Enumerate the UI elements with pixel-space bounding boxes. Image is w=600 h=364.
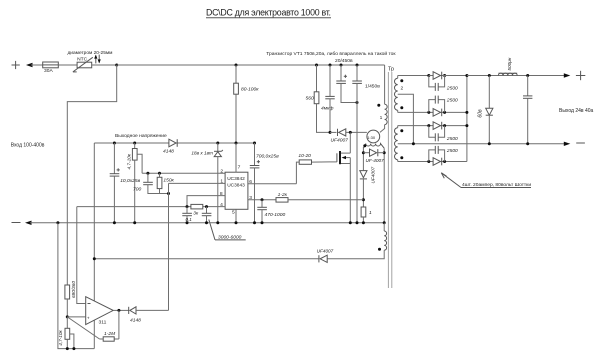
dimension arrow up (94, 55, 97, 64)
svg-text:18в х 1вт: 18в х 1вт (191, 151, 213, 156)
diode 4148 comparator (129, 307, 169, 324)
svg-text:1: 1 (369, 210, 372, 216)
svg-text:Выходное напряжение: Выходное напряжение (115, 133, 167, 139)
svg-text:NTC: NTC (77, 57, 88, 63)
wire output plus bus (467, 75, 566, 77)
input plus terminal (12, 61, 43, 69)
svg-text:2: 2 (220, 169, 223, 175)
op-amp 311 (86, 297, 114, 326)
wire pin2 feedback node (142, 172, 225, 175)
diode 4148 vcc feed (160, 139, 177, 154)
input minus terminal (12, 221, 32, 225)
svg-text:3к: 3к (193, 211, 199, 217)
svg-text:60в: 60в (478, 109, 484, 118)
transformer secondary winding lower (395, 126, 404, 162)
svg-text:2500: 2500 (446, 86, 458, 92)
wire pin1 (169, 182, 226, 184)
wire op-amp output (113, 309, 129, 312)
transformer primary winding 1 (377, 65, 387, 132)
callout 4pcs 20A 80V schottky (441, 173, 531, 188)
wire w1 center tap (398, 94, 414, 144)
svg-text:1-2М: 1-2М (104, 331, 116, 337)
svg-text:Тр: Тр (388, 67, 394, 73)
resistor 1-2M hysteresis (67, 310, 119, 341)
svg-text:4мкф: 4мкф (321, 106, 333, 112)
wire pin5 gnd (235, 209, 237, 223)
svg-text:7: 7 (238, 165, 241, 171)
svg-text:4,7-10к: 4,7-10к (127, 153, 132, 169)
capacitor 2500 on D4 (429, 146, 458, 162)
capacitor 2500 on D3 (429, 126, 458, 142)
svg-text:UC3842: UC3842 (227, 176, 245, 182)
svg-text:5: 5 (232, 210, 235, 216)
CT secondary left lead (362, 147, 364, 170)
svg-text:311: 311 (99, 319, 107, 325)
diode D2 schottky (427, 109, 446, 117)
resistor 80-100k startup (234, 64, 260, 144)
resistor 3k (191, 204, 203, 216)
diode UF4007 snubber clamp (330, 129, 367, 144)
inductor 500uH (498, 57, 517, 75)
wire input jog down-left (67, 65, 116, 285)
output plus terminal (564, 71, 586, 80)
capacitor 2500 on D2 (429, 96, 458, 113)
wire pin8 (187, 196, 225, 207)
current transformer 1:30 (363, 130, 384, 148)
zener 18v x2 vcc clamp (191, 142, 222, 223)
resistor 1-2k (276, 192, 363, 202)
potentiometer 4,7-10k upper (127, 142, 142, 223)
svg-text:2500: 2500 (446, 136, 458, 142)
svg-text:700: 700 (133, 187, 141, 193)
wire comp node (160, 183, 171, 310)
svg-text:UC3843: UC3843 (227, 183, 245, 189)
svg-text:1/450в: 1/450в (365, 84, 380, 90)
resistor 680/360 divider (65, 281, 76, 319)
wire w2 center tap / output minus bus (398, 142, 566, 145)
svg-text:4,7-10к: 4,7-10к (58, 330, 63, 346)
wire comparator ground return (58, 223, 94, 350)
svg-text:700,0х25в: 700,0х25в (256, 154, 279, 160)
svg-text:80-100к: 80-100к (241, 86, 259, 92)
wire plus input (67, 316, 85, 318)
wire pin7 vcc (235, 142, 238, 173)
wire pin3 sense (248, 198, 276, 201)
wire pin6 output (248, 183, 297, 185)
wire top bus (117, 64, 385, 66)
zener 60v clamp (478, 74, 493, 145)
svg-text:2: 2 (401, 86, 404, 92)
CT secondary right lead (383, 148, 385, 223)
svg-text:диаметром 20-25мм: диаметром 20-25мм (68, 50, 113, 56)
fuse 30A (43, 62, 77, 74)
capacitor 20/450v bulk (335, 58, 357, 103)
resistor 1 burden (361, 207, 372, 223)
capacitor 1/450v film (352, 64, 380, 223)
diode D1 schottky (427, 72, 467, 80)
svg-text:UF4007: UF4007 (371, 166, 376, 183)
wire pin4 line (77, 205, 225, 208)
svg-text:470-1000: 470-1000 (265, 212, 286, 218)
svg-text:10,0х25в: 10,0х25в (120, 178, 140, 184)
diode D4 schottky (427, 158, 446, 166)
svg-text:0,1: 0,1 (186, 217, 193, 222)
callout 3000-6000 (209, 220, 246, 241)
capacitor 4uF snubber (321, 64, 335, 134)
svg-text:1: 1 (220, 179, 223, 185)
capacitor 0,1 (182, 207, 192, 223)
resistor 10-20 gate (296, 153, 337, 184)
diode UF4007 on CT left lead (vertical) (360, 166, 376, 207)
wire bottom bus (30, 221, 386, 224)
wire minus input (77, 207, 86, 304)
chip UC3842/UC3843 (225, 172, 248, 209)
svg-text:20/450в: 20/450в (335, 58, 353, 64)
dimension arrow down (98, 55, 101, 64)
svg-text:UF4007: UF4007 (317, 248, 334, 253)
svg-text:500μн: 500μн (507, 57, 512, 70)
potentiometer 4,7-10k lower (58, 317, 74, 349)
svg-text:+: + (87, 316, 90, 321)
capacitor 700uF vcc (250, 142, 279, 223)
svg-text:30А: 30А (44, 68, 53, 74)
diode D3 schottky (427, 122, 446, 130)
svg-text:UF-4007: UF-4007 (366, 158, 385, 163)
capacitor 10uF vcc (110, 142, 141, 223)
svg-text:10-20: 10-20 (298, 153, 311, 159)
svg-text:680/360: 680/360 (71, 281, 76, 298)
capacitor output (523, 74, 532, 145)
thermistor NTC (73, 57, 117, 72)
svg-text:4148: 4148 (130, 318, 141, 324)
title (206, 8, 331, 18)
svg-text:4шт. 20ампер, 80вольт Шоттки: 4шт. 20ампер, 80вольт Шоттки (462, 182, 531, 188)
transformer core (388, 72, 391, 288)
svg-text:560: 560 (306, 95, 314, 101)
capacitor 3000-6000 (202, 207, 212, 223)
wire vcc rail (94, 143, 255, 349)
wire rectifier output collector (465, 74, 468, 162)
capacitor 2500 on D1 (429, 76, 458, 92)
svg-text:3000-6000: 3000-6000 (218, 235, 242, 241)
svg-text:2500: 2500 (446, 98, 458, 104)
svg-text:Выход 24в 40а: Выход 24в 40а (559, 108, 594, 114)
output minus terminal (564, 142, 585, 146)
transformer secondary winding upper (395, 76, 404, 113)
MOSFET VT1 (337, 132, 350, 222)
resistor 150k feedback (157, 173, 174, 193)
svg-text:Вход 100-400в: Вход 100-400в (11, 142, 45, 148)
diode UF4007 CT clamp (horizontal) (362, 149, 386, 163)
capacitor 470-1000 (257, 200, 285, 223)
wire secondary to rectifiers (398, 75, 429, 77)
svg-text:UF4007: UF4007 (331, 138, 349, 144)
svg-text:2500: 2500 (446, 148, 458, 154)
transformer aux winding (328, 223, 387, 259)
diode UF4007 aux feed (93, 248, 334, 262)
svg-text:1-2к: 1-2к (278, 192, 288, 198)
svg-text:4148: 4148 (163, 149, 174, 155)
svg-text:Транзистор VT1 750в,20а, либо: Транзистор VT1 750в,20а, либо впараллель… (266, 50, 396, 57)
svg-text:1: 1 (380, 115, 383, 121)
capacitor 700 feedback (133, 173, 160, 193)
svg-text:1:30: 1:30 (367, 135, 376, 140)
svg-text:DC\DC для электроавто 1000 вт.: DC\DC для электроавто 1000 вт. (206, 8, 331, 18)
svg-text:150к: 150к (163, 178, 174, 184)
resistor 560 snubber (306, 64, 331, 133)
node input junction (115, 64, 118, 67)
